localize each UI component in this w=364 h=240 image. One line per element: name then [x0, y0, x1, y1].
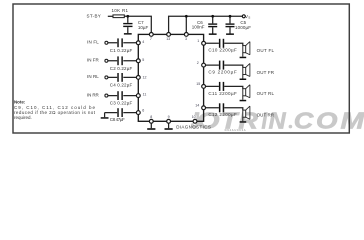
svg-text:13: 13: [166, 37, 170, 41]
svg-text:OUT FL: OUT FL: [257, 48, 275, 53]
svg-text:S: S: [248, 16, 250, 20]
svg-text:OUT RL: OUT RL: [257, 91, 275, 96]
svg-text:M: M: [341, 108, 364, 134]
svg-text:C11 2200µF: C11 2200µF: [208, 91, 237, 96]
svg-text:C8 47µF: C8 47µF: [110, 117, 125, 122]
svg-text:1: 1: [197, 39, 199, 43]
svg-text:C10 2200µF: C10 2200µF: [208, 48, 237, 53]
svg-text:C2 0.22µF: C2 0.22µF: [110, 66, 133, 71]
svg-text:100nF: 100nF: [192, 25, 205, 30]
svg-text:1000µF: 1000µF: [235, 25, 251, 30]
svg-text:IN RR: IN RR: [87, 92, 100, 97]
svg-text:10K R1: 10K R1: [112, 8, 129, 13]
svg-text:ST-BY: ST-BY: [87, 14, 101, 19]
svg-text:I: I: [262, 108, 268, 134]
svg-text:15: 15: [196, 82, 200, 86]
svg-text:4: 4: [142, 40, 144, 44]
svg-text:C3 0.22µF: C3 0.22µF: [110, 101, 133, 106]
svg-text:C12 2200µF: C12 2200µF: [208, 112, 237, 117]
svg-text:IN FR: IN FR: [87, 58, 100, 63]
svg-text:C: C: [294, 108, 314, 134]
svg-text:8: 8: [150, 115, 152, 119]
svg-text:IN RL: IN RL: [87, 74, 99, 79]
svg-text:3: 3: [185, 37, 187, 41]
svg-text:6: 6: [142, 108, 144, 112]
svg-text:C1 0.22µF: C1 0.22µF: [110, 48, 133, 53]
svg-text:D94AU063A: D94AU063A: [225, 128, 246, 132]
svg-text:7: 7: [150, 37, 152, 41]
svg-text:14: 14: [195, 104, 199, 108]
svg-text:OUT RR: OUT RR: [257, 113, 275, 118]
svg-text:O: O: [316, 108, 338, 134]
svg-text:DIAGNOSTICS: DIAGNOSTICS: [176, 125, 211, 130]
svg-text:9: 9: [168, 115, 170, 119]
svg-text:10µF: 10µF: [138, 25, 149, 30]
svg-text:N: N: [269, 108, 287, 134]
svg-text:12: 12: [143, 76, 147, 80]
svg-text:10: 10: [192, 115, 196, 119]
svg-text:IN FL: IN FL: [87, 40, 99, 45]
svg-text:required.: required.: [14, 115, 32, 120]
svg-text:C4 0.22µF: C4 0.22µF: [110, 83, 133, 88]
svg-text:5: 5: [142, 58, 144, 62]
svg-text:C9 2200µF: C9 2200µF: [208, 70, 237, 75]
svg-text:OUT FR: OUT FR: [257, 70, 275, 75]
svg-text:11: 11: [143, 93, 147, 97]
svg-text:Note:: Note:: [14, 100, 26, 105]
svg-text:2: 2: [197, 61, 199, 65]
